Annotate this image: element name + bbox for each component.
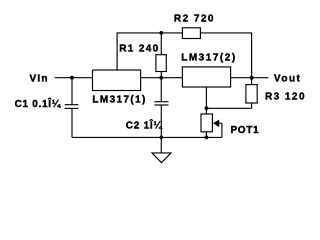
svg-text:VIn: VIn [30, 74, 48, 85]
svg-text:POT1: POT1 [231, 125, 259, 136]
svg-text:LM317(2): LM317(2) [181, 53, 235, 64]
svg-text:LM317(1): LM317(1) [92, 95, 145, 106]
svg-text:R2 720: R2 720 [174, 14, 214, 25]
svg-text:R3 120: R3 120 [265, 91, 305, 102]
svg-text:C2 1Î¼: C2 1Î¼ [126, 119, 163, 132]
svg-text:R1 240: R1 240 [119, 44, 158, 55]
svg-text:C1 0.1Î¼: C1 0.1Î¼ [15, 97, 61, 110]
svg-text:Vout: Vout [274, 73, 301, 84]
